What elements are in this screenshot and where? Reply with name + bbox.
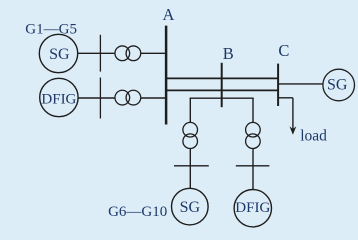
load branch horizontal [278, 97, 293, 99]
breaker tick branch right [236, 165, 270, 167]
bus line lower A to C [165, 89, 279, 91]
transformer T3 [183, 122, 198, 137]
transformer T2 [115, 90, 130, 105]
generator SG right circle [323, 69, 355, 101]
branch bracket horizontal [190, 97, 254, 99]
bus A vertical [165, 26, 168, 125]
transformer T4 [246, 122, 261, 137]
svg-text:DFIG: DFIG [41, 91, 76, 107]
breaker tick row2 [99, 78, 101, 119]
breaker tick row1 [99, 35, 101, 72]
breaker tick branch left [174, 165, 209, 167]
svg-text:SG: SG [49, 46, 70, 63]
wire T2 to bus A [141, 97, 166, 99]
wire C to right SG [278, 83, 323, 85]
bus line upper A to C [165, 77, 279, 79]
wire T3 to SG bottom [189, 149, 191, 189]
generator SG (G1-G5) circle [39, 34, 77, 72]
svg-text:load: load [300, 128, 327, 145]
wire branch left down [189, 98, 191, 122]
svg-text:G1—G5: G1—G5 [25, 22, 77, 38]
transformer T1 [115, 46, 130, 61]
svg-text:G6—G10: G6—G10 [108, 204, 167, 220]
svg-text:DFIG: DFIG [235, 200, 270, 216]
wire SG to transformer T1 [78, 52, 116, 54]
svg-text:B: B [223, 44, 234, 63]
svg-text:SG: SG [327, 77, 348, 94]
bus tick B [221, 63, 223, 107]
svg-text:C: C [278, 41, 289, 60]
wire T4 to DFIG bottom [252, 149, 254, 190]
svg-text:SG: SG [180, 199, 201, 216]
generator DFIG bottom circle [234, 190, 271, 227]
load arrowhead [290, 126, 297, 135]
generator DFIG circle [40, 78, 78, 116]
wire DFIG to transformer T2 [78, 97, 115, 99]
wire T1 to bus A [141, 52, 166, 54]
generator SG (G6-G10) circle [172, 188, 209, 225]
bus tick C [277, 64, 279, 106]
wire branch right down [252, 98, 254, 122]
load branch vertical [292, 98, 294, 130]
svg-text:A: A [163, 5, 175, 24]
